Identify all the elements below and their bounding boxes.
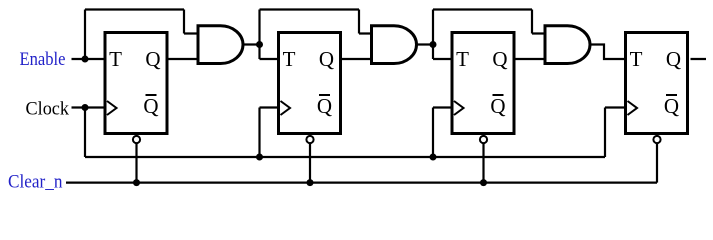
svg-text:Q: Q [319,47,334,71]
svg-text:T: T [283,47,296,71]
svg-text:Q: Q [145,47,160,71]
svg-text:Q: Q [666,47,681,71]
svg-text:Enable: Enable [20,49,66,70]
svg-text:T: T [456,47,469,71]
svg-text:T: T [109,47,122,71]
svg-text:Q: Q [664,94,679,118]
svg-text:Q: Q [317,94,332,118]
svg-text:Q: Q [492,47,507,71]
svg-text:Clear_n: Clear_n [8,172,63,193]
svg-text:Q: Q [490,94,505,118]
svg-text:T: T [630,47,643,71]
svg-text:Clock: Clock [26,99,70,120]
svg-text:Q: Q [143,94,158,118]
